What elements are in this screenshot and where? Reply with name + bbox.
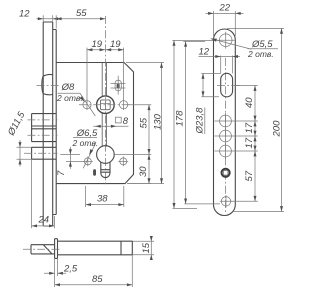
strike plate outline (right view) (214, 29, 236, 216)
svg-text:85: 85 (92, 274, 103, 285)
svg-text:Ø23,8: Ø23,8 (195, 107, 206, 135)
dimension 2.5 (44, 258, 78, 287)
extension lines hole rows (215, 121, 258, 151)
svg-text:22: 22 (219, 3, 231, 14)
hole d8 left (83, 99, 91, 110)
slot centerline (217, 85, 242, 87)
latch strip 2 centerline (28, 134, 58, 136)
black slot below cylinder (93, 169, 96, 175)
svg-text:7: 7 (56, 170, 67, 176)
svg-text:19: 19 (92, 39, 103, 50)
svg-text:55: 55 (76, 8, 87, 19)
svg-text:2 отв.: 2 отв. (56, 93, 83, 103)
deadbolt centerline (37, 84, 60, 86)
dimension 178 (173, 40, 221, 208)
svg-text:57: 57 (244, 170, 255, 181)
svg-text:38: 38 (97, 194, 108, 205)
latch slot in plate (221, 73, 233, 97)
channel lines (102, 63, 106, 147)
plate hole row 2 (220, 128, 232, 144)
svg-text:12: 12 (199, 47, 210, 58)
svg-text:200: 200 (272, 120, 283, 138)
svg-text:55: 55 (139, 117, 150, 128)
svg-text:178: 178 (175, 110, 186, 127)
plate screw with square socket (222, 169, 230, 177)
bottom view latch centerline (23, 248, 61, 250)
svg-text:15: 15 (141, 242, 152, 253)
horizontal centerline through holes row 1 (79, 104, 132, 106)
hole d6.5 left (83, 157, 93, 167)
lock body outline (56, 63, 133, 184)
deadbolt head arcs in plate (43, 74, 53, 94)
extension line bottom hole (231, 200, 258, 202)
bottom view faceplate section (55, 239, 58, 259)
svg-text:8: 8 (123, 116, 129, 127)
back plate line with hooks (53, 30, 57, 215)
svg-text:17: 17 (244, 122, 255, 133)
dimension 15 (132, 236, 154, 260)
dimension 24 (32, 159, 55, 228)
leader d5.5 2 holes (210, 37, 278, 59)
follower square hole (100, 100, 110, 110)
hole d6.5 right (118, 157, 128, 167)
dimension 12 (top left) (19, 9, 60, 22)
hole d8 right (120, 99, 128, 110)
svg-text:40: 40 (244, 97, 255, 108)
svg-text:2,5: 2,5 (63, 264, 78, 275)
dimension d11.5 (5, 109, 31, 166)
bottom view latch bolt (31, 245, 55, 254)
svg-text:2 отв.: 2 отв. (247, 49, 274, 59)
latch strip 1 centerline (28, 119, 58, 121)
dimension chain 40 17 17 (236, 86, 258, 152)
svg-text:Ø8: Ø8 (61, 82, 75, 93)
plate bottom hole (220, 195, 232, 208)
svg-text:130: 130 (152, 113, 163, 130)
faceplate strip (front view) (43, 22, 53, 226)
svg-text:24: 24 (38, 215, 50, 226)
svg-text:30: 30 (138, 166, 149, 177)
leader d6.5 2 holes (72, 128, 99, 168)
round bolt centerline (24, 152, 58, 154)
plate hole row 3 (220, 143, 232, 159)
euro cylinder hole (97, 146, 115, 178)
svg-text:12: 12 (19, 9, 30, 20)
dimension 55 (top) (56, 8, 105, 29)
dimension 55 (right side vertical) (128, 105, 152, 184)
vertical centerline of lock (104, 16, 106, 185)
dimension 30 (right side vertical) (114, 154, 151, 183)
dimension 19 19 (87, 39, 124, 100)
follower U-circle (97, 96, 115, 114)
svg-text:2 отв.: 2 отв. (72, 138, 99, 148)
dimension 200 (227, 28, 284, 211)
dimension 130 (right side vertical) (126, 63, 164, 184)
latch strip 2 (32, 129, 57, 142)
leader d8 2 holes (56, 82, 95, 116)
dimension 22 (206, 3, 244, 37)
dimension 7 (56, 147, 84, 176)
plate hole row 1 (220, 113, 232, 129)
round bolt (32, 147, 57, 159)
dimension 12 (plate slot) (199, 47, 241, 74)
dimension 38 (86, 186, 124, 207)
bottom view body bar (58, 241, 133, 255)
fixing screw slot detail (111, 76, 126, 95)
svg-text:19: 19 (110, 39, 121, 50)
dimension d23.8 (195, 73, 221, 134)
leader square 8 (93, 116, 128, 128)
latch strip 1 (32, 114, 57, 142)
plate vertical centerline (225, 58, 227, 212)
top screw hole (217, 32, 235, 49)
svg-text:17: 17 (244, 137, 255, 148)
dimension 85 (55, 255, 133, 287)
dimension 57 (244, 151, 257, 201)
